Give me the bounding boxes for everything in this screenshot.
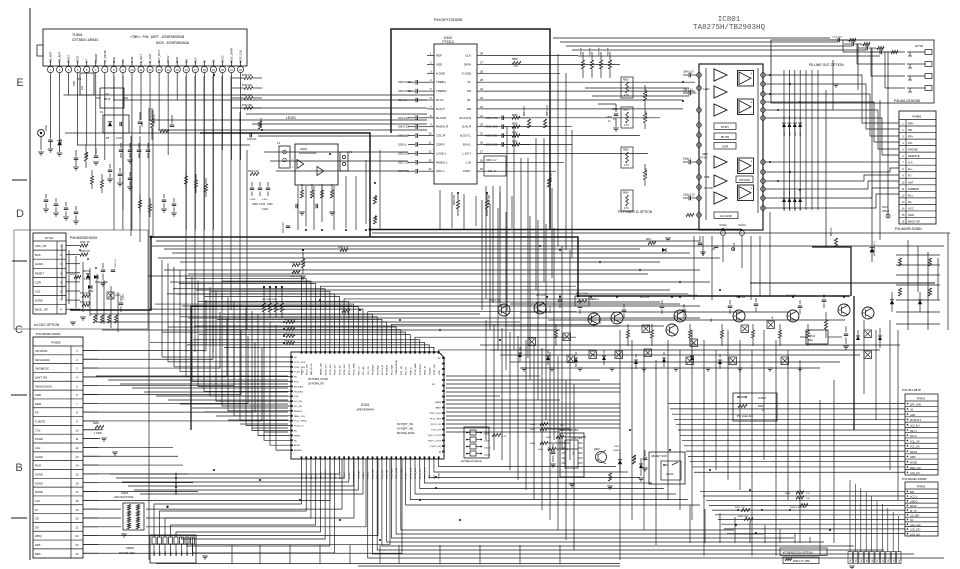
- ground: [613, 127, 619, 129]
- svg-text:P/N-6612J00015D: P/N-6612J00015D: [894, 99, 921, 103]
- resistor R446: [800, 503, 808, 506]
- svg-text:CD MUTE: CD MUTE: [35, 349, 47, 353]
- wire right columns: [619, 330, 621, 560]
- PN603 slot 1: [152, 537, 156, 544]
- PN505 pin 4 LIM(T SW: [33, 371, 83, 373]
- TU501 pin 7 AF_MUTE: [102, 66, 108, 72]
- IC401 left pins: [290, 356, 293, 358]
- svg-text:19: 19: [480, 132, 484, 136]
- svg-text:R706 470: R706 470: [80, 251, 91, 253]
- resistor R080: [744, 517, 753, 520]
- svg-text:C628: C628: [250, 199, 256, 201]
- thick section border (IC601 block): [391, 29, 550, 230]
- PN401 pin 9 VOL_DN: [905, 442, 938, 444]
- ground symbols under IC801: [665, 237, 671, 239]
- svg-text:25: 25: [480, 78, 484, 82]
- svg-text:21: 21: [76, 525, 79, 529]
- svg-text:PN801: PN801: [912, 115, 922, 119]
- svg-text:R655: R655: [512, 142, 518, 144]
- svg-text:PWR_C: PWR_C: [410, 367, 412, 375]
- svg-text:ZD701: ZD701: [83, 271, 91, 273]
- svg-text:PACE: PACE: [435, 401, 441, 404]
- svg-text:VCC1: VCC1: [719, 223, 727, 227]
- svg-text:AC.GND: AC.GND: [720, 214, 733, 218]
- resistor R507 box: [575, 296, 589, 306]
- svg-text:17: 17: [76, 490, 79, 494]
- svg-text:21: 21: [480, 114, 484, 118]
- IC903 resistor element: [128, 523, 131, 529]
- ground: [127, 159, 133, 161]
- PN801 pin 12 RL+: [899, 190, 936, 192]
- svg-text:PLCL_RE3: PLCL_RE3: [430, 419, 442, 421]
- svg-text:D.GND: D.GND: [462, 71, 471, 75]
- svg-text:PCL_AD: PCL_AD: [362, 366, 365, 375]
- svg-text:4.7K: 4.7K: [624, 125, 629, 127]
- transistor Q503: [588, 313, 600, 325]
- svg-text:R110 2.2K: R110 2.2K: [248, 171, 259, 173]
- wire bottom edge lines: [156, 563, 399, 565]
- resistor R531: [824, 320, 827, 329]
- svg-text:-: -: [751, 170, 752, 174]
- IC801 internal amp stage: [714, 86, 727, 98]
- svg-text:F1: F1: [100, 110, 104, 114]
- svg-text:SVR: SVR: [722, 145, 729, 149]
- IC601 pin 17 L-OUT: [477, 152, 484, 154]
- svg-text:PCLAGBY: PCLAGBY: [372, 364, 375, 375]
- svg-text:AB-DET S/W: AB-DET S/W: [651, 454, 667, 458]
- svg-text:C51: C51: [660, 326, 665, 328]
- svg-text:MOS_CLK: MOS_CLK: [239, 49, 243, 63]
- resistor R449 100: [796, 496, 804, 499]
- PN801 pin 14 ACC: [899, 203, 936, 205]
- ground: [48, 148, 54, 150]
- svg-text:R691 1K: R691 1K: [581, 47, 583, 56]
- svg-text:MCL_NR: MCL_NR: [401, 366, 403, 375]
- band option jumper D409: [470, 437, 476, 442]
- wire verticals from tuner: [113, 76, 115, 230]
- JK701 pin 8 BACK_UP: [33, 304, 66, 306]
- svg-text:B: B: [15, 462, 22, 474]
- PN505 pin 5 SW4(CHUCK): [33, 380, 83, 382]
- svg-text:C725 1/50: C725 1/50: [846, 41, 857, 43]
- svg-text:18: 18: [76, 499, 79, 503]
- IC801 left pin 4: [697, 123, 702, 128]
- A2 band option connector: [464, 427, 489, 458]
- wire vertical output: [783, 70, 785, 210]
- node junction dots on bold nets: [369, 228, 372, 231]
- svg-text:HKF74HCT244K: HKF74HCT244K: [114, 495, 134, 499]
- svg-text:24: 24: [480, 87, 484, 91]
- svg-text:RR-: RR-: [908, 128, 913, 132]
- PN505 pin 19 DI: [33, 504, 83, 506]
- svg-text:23: 23: [480, 96, 484, 100]
- svg-text:R688 4.7: R688 4.7: [551, 172, 553, 182]
- boxed resistor R802: [621, 77, 633, 98]
- resistor stack R401-R404 horizontal: [286, 320, 295, 323]
- svg-text:P/N:6620SEH002A: P/N:6620SEH002A: [70, 236, 98, 240]
- IC801 output stage: [738, 71, 754, 87]
- IC801 internal amp stage: [714, 175, 727, 187]
- PN401 pin 10 SE/AS: [905, 448, 938, 450]
- ground: [80, 316, 86, 318]
- IC801 internal amp stage: [714, 69, 727, 81]
- grounds row: [521, 367, 527, 369]
- svg-text:PC6P_JES: PC6P_JES: [294, 367, 305, 369]
- svg-text:82 PQPT_IN1: 82 PQPT_IN1: [397, 422, 414, 426]
- PN401 pin 6 KEY-1: [905, 426, 938, 428]
- PN401 pin 8 VOL_UP: [905, 437, 938, 439]
- svg-text:PANT: PANT: [435, 407, 441, 410]
- IC601 pin 28 CLK: [477, 55, 484, 57]
- svg-text:R401 4.1K: R401 4.1K: [284, 320, 294, 322]
- IC801 right pin 17: [761, 160, 766, 165]
- svg-text:R653 4.7K: R653 4.7K: [547, 105, 549, 116]
- svg-text:101: 101: [80, 85, 84, 90]
- svg-text:VCLAD: VCLAD: [428, 367, 431, 375]
- TU501 pin 2 FM_ANT: [56, 66, 62, 72]
- resistor R706: [80, 253, 88, 256]
- svg-text:R651: R651: [376, 214, 378, 220]
- TU501 pin 20 VCC3: [219, 66, 225, 72]
- zener diodes row: [518, 353, 522, 357]
- svg-text:B.IN.L: B.IN.L: [463, 143, 471, 147]
- IC903 resistor element: [128, 505, 131, 511]
- TU501 pin 8 GND: [111, 66, 117, 72]
- wire vertical output: [788, 70, 790, 210]
- wire IC401 bottom fan: [154, 459, 302, 537]
- diode D80x: [662, 248, 666, 252]
- speaker output wires: [766, 74, 860, 76]
- IC801 right pin 27: [761, 206, 766, 211]
- IC801 left pin 25: [697, 160, 702, 165]
- svg-text:R802: R802: [623, 79, 629, 81]
- PN505 pin 20 CE: [33, 513, 83, 515]
- svg-text:S.GND: S.GND: [704, 186, 713, 190]
- svg-text:BACK-UP: BACK-UP: [908, 219, 920, 223]
- svg-text:12: 12: [428, 149, 432, 153]
- svg-text:RADIO.R: RADIO.R: [436, 125, 448, 129]
- resistor R407: [738, 404, 747, 407]
- ground: [202, 555, 208, 557]
- PN801 pin 3 FR+: [899, 132, 936, 134]
- svg-text:B.IN.R: B.IN.R: [462, 125, 471, 129]
- svg-text:RL: RL: [467, 98, 471, 102]
- JK703 jack 2: [925, 62, 932, 67]
- svg-text:18: 18: [480, 141, 484, 145]
- svg-text:<TBK> P/N: DIRT - 6700FM0052: <TBK> P/N: DIRT - 6700FM0052B: [130, 35, 185, 39]
- PN505 pin 16 SGND: [33, 477, 83, 479]
- svg-text:Q902: Q902: [594, 449, 600, 451]
- F1 fuse box with diode: [103, 115, 129, 133]
- svg-text:C607 2.20: C607 2.20: [398, 162, 409, 164]
- IC601 pin 9 RADIO.R: [427, 126, 434, 128]
- power amplifier IC801 body: [699, 64, 763, 230]
- svg-text:DGND: DGND: [35, 299, 43, 303]
- IC801 MUTE box: [714, 133, 736, 140]
- capacitor C502: [74, 157, 79, 159]
- svg-text:DI: DI: [35, 508, 38, 512]
- svg-text:13: 13: [76, 455, 79, 459]
- svg-text:CLK: CLK: [35, 499, 40, 503]
- svg-text:R693 1K: R693 1K: [599, 47, 601, 56]
- svg-text:C626 1n: C626 1n: [398, 145, 407, 147]
- caps between transistors: [558, 299, 563, 301]
- PN505 pin 21 DO: [33, 521, 83, 523]
- TU501 pin 18 DI: [201, 66, 207, 72]
- svg-text:R649: R649: [376, 194, 378, 200]
- svg-text:C163 9-1: C163 9-1: [247, 139, 257, 141]
- svg-text:4.7K: 4.7K: [502, 436, 507, 438]
- wire links transistor row: [510, 303, 680, 305]
- svg-text:PS: PS: [35, 411, 39, 415]
- svg-text:PRCL_M: PRCL_M: [425, 366, 427, 375]
- svg-text:D510: D510: [59, 138, 63, 145]
- PN401 pin 3 GND: [905, 411, 938, 413]
- diode D702: [94, 275, 98, 279]
- svg-text:C84i 0-10: C84i 0-10: [683, 71, 694, 74]
- svg-text:16: 16: [480, 158, 484, 162]
- IC801 output stage: [738, 185, 754, 201]
- svg-text:NC: NC: [438, 358, 442, 360]
- svg-text:PCCL_DFF: PCCL_DFF: [294, 362, 306, 364]
- svg-text:PN505: PN505: [51, 341, 61, 345]
- svg-text:COP.L: COP.L: [463, 169, 472, 173]
- svg-text:RL+: RL+: [908, 193, 913, 197]
- ground: [112, 451, 118, 453]
- resistor R921: [632, 455, 635, 464]
- svg-text:R774 10K: R774 10K: [80, 302, 91, 304]
- ground: [638, 477, 644, 479]
- svg-text:P/N:01PY2313008: P/N:01PY2313008: [434, 18, 462, 22]
- svg-text:VSS: VSS: [294, 396, 299, 398]
- wire horizontals under transistor row: [480, 344, 900, 346]
- svg-text:16: 16: [76, 481, 79, 485]
- JK703 jack 3: [925, 74, 932, 79]
- boxed resistor R806: [621, 147, 633, 168]
- svg-text:PCLPWM2: PCLPWM2: [420, 363, 422, 375]
- svg-text:NC: NC: [294, 431, 298, 433]
- IC601 pin 24 FR: [477, 90, 484, 92]
- IC601 pin 18 B.IN.L: [477, 144, 484, 146]
- ground: [833, 83, 839, 85]
- PN505 pin 3 SW2(B/12C: [33, 363, 83, 365]
- IC902 surrounding caps: [551, 451, 556, 453]
- TU501 pin 11 L_OUT: [138, 66, 144, 72]
- PN505 pin 18 CLK: [33, 495, 83, 497]
- svg-text:R450: R450: [93, 422, 99, 425]
- resistor group below tuner: [90, 176, 93, 184]
- resistor R649: [373, 196, 376, 204]
- TU501 pin 12 R_OUT: [147, 66, 153, 72]
- svg-text:PCOL_DIF: PCOL_DIF: [306, 364, 308, 375]
- AB-DET switch box: [649, 452, 685, 484]
- svg-text:22: 22: [480, 105, 484, 109]
- svg-text:R428 4.7K: R428 4.7K: [340, 308, 350, 310]
- svg-text:PCOL_DM: PCOL_DM: [344, 364, 346, 375]
- svg-text:CE: CE: [35, 517, 39, 521]
- bold net lower right riser: [853, 296, 855, 430]
- PN402 pin 8 LCD_CLK: [905, 521, 938, 523]
- svg-text:PCOL_PAM: PCOL_PAM: [353, 363, 356, 375]
- resistor R428: [342, 309, 350, 312]
- PN505 pin 9 D.MUTE: [33, 416, 83, 418]
- svg-text:uPD784044A: uPD784044A: [356, 408, 374, 412]
- svg-text:CET8520-1/B540: CET8520-1/B540: [72, 38, 98, 42]
- diode cluster: [782, 123, 786, 127]
- svg-text:RR: RR: [467, 107, 471, 111]
- IC801 left pin 22: [697, 143, 702, 148]
- svg-text:PAF_MUTE: PAF_MUTE: [310, 363, 313, 375]
- PN401 pin 14 LCD_DO: [905, 469, 938, 471]
- svg-text:3300/16: 3300/16: [734, 242, 736, 251]
- svg-text:A2 Band Option: A2 Band Option: [461, 459, 483, 463]
- svg-text:VDD: VDD: [436, 62, 442, 66]
- svg-text:R8 0.3w: R8 0.3w: [831, 227, 833, 236]
- svg-text:SW4(CHUCK): SW4(CHUCK): [35, 384, 52, 388]
- ground: [299, 211, 305, 213]
- PN505 pin 2 SW1(LOAD): [33, 354, 83, 356]
- svg-text:R50 1/2W: R50 1/2W: [640, 297, 649, 299]
- resistor R110: [250, 172, 259, 175]
- IC801 left pin 14: [697, 196, 702, 201]
- svg-text:0.022: 0.022: [262, 199, 268, 201]
- svg-text:ACC: ACC: [908, 206, 914, 210]
- svg-text:NC: NC: [294, 357, 298, 359]
- PN801 pin 7 N-C: [899, 158, 936, 160]
- junction dots mesh: [213, 74, 215, 76]
- svg-text:PCLPWM: PCLPWM: [377, 365, 379, 375]
- svg-text:NC: NC: [294, 377, 298, 379]
- svg-text:FR: FR: [467, 89, 471, 93]
- svg-text:NC: NC: [294, 440, 298, 442]
- ground: [70, 321, 76, 323]
- resistor R408 vertical with ground: [301, 259, 304, 268]
- svg-text:P/N-6600R-S208N: P/N-6600R-S208N: [895, 227, 922, 231]
- svg-text:RADIO.L: RADIO.L: [436, 160, 448, 164]
- svg-text:CN_9: CN_9: [883, 558, 885, 563]
- PN801 pin 6 REMOTE: [899, 151, 936, 153]
- svg-text:GJ501: GJ501: [758, 396, 766, 400]
- svg-text:TREB.R: TREB.R: [436, 89, 447, 93]
- IC801 left pin 1: [697, 175, 702, 180]
- svg-text:CN_9: CN_9: [877, 558, 879, 563]
- svg-text:D: D: [16, 208, 24, 220]
- resistor R44x bottom: [540, 422, 548, 425]
- IC601 pin 13 RADIO.L: [427, 161, 434, 163]
- svg-text:PC6P_CZ: PC6P_CZ: [294, 372, 305, 374]
- PN401 pin 1 BAT_GND: [907, 403, 909, 405]
- wire IC801 bottom drops: [693, 236, 695, 300]
- svg-text:R652: R652: [512, 58, 518, 61]
- wire bottom edge line 2: [358, 565, 620, 567]
- resistor pair R403 R405: [292, 263, 300, 266]
- svg-text:GND: GND: [908, 213, 914, 217]
- svg-text:DIMMER: DIMMER: [908, 187, 919, 191]
- svg-text:SGND: SGND: [35, 472, 43, 476]
- PN401 pin 4 MUTE-B.4: [905, 416, 938, 418]
- IC801 internal rails: [705, 68, 707, 220]
- IC801 right pin 20: [761, 179, 766, 184]
- junction dots op-amp drops: [305, 229, 307, 231]
- capacitor C707: [111, 269, 116, 271]
- zener ZD701: [86, 274, 90, 278]
- caps row y190: [250, 187, 255, 189]
- JK703 jack 1: [925, 50, 932, 55]
- svg-text:GND: GND: [44, 125, 48, 131]
- svg-text:29 PORN_PS: 29 PORN_PS: [308, 382, 324, 386]
- transistor Q902: [596, 452, 607, 463]
- IC801 internal amp stage: [714, 104, 727, 116]
- svg-text:R773 10K: R773 10K: [80, 293, 91, 295]
- TU501 pin 9 SD: [120, 66, 126, 72]
- ground: [38, 151, 44, 153]
- svg-text:R728 10K: R728 10K: [242, 75, 253, 77]
- IC801 right pin 7: [761, 82, 766, 87]
- wire bus IC601 to IC801: [484, 55, 578, 57]
- IC801 AC.GND box: [714, 212, 738, 219]
- PN402 pin 10 LOO_DO: [905, 530, 938, 532]
- junction dots transistor rail: [546, 296, 548, 298]
- PN402 pin 2 ACC-1: [905, 493, 938, 495]
- svg-text:PN401: PN401: [917, 397, 926, 401]
- IC601 right diode-resistor rows: [484, 117, 486, 119]
- svg-text:JK701: JK701: [45, 236, 54, 240]
- PN505 pin 7 REW: [33, 398, 83, 400]
- resistor pair R448 100: [796, 491, 804, 494]
- svg-text:RES: RES: [35, 552, 41, 556]
- svg-text:TRANSGSPNR: TRANSGSPNR: [395, 359, 398, 375]
- svg-text:R809: R809: [623, 192, 629, 194]
- svg-text:HSD: HSD: [704, 87, 710, 91]
- svg-text:IC401: IC401: [361, 403, 370, 407]
- svg-text:TA8275H/TB2903HQ: TA8275H/TB2903HQ: [693, 24, 766, 32]
- dots option area: [79, 249, 81, 251]
- svg-text:R697 47K: R697 47K: [489, 194, 491, 205]
- CDC option outline box: [14, 230, 148, 329]
- cap C8xx bottom2: [714, 245, 719, 247]
- capacitor C642: [315, 204, 317, 209]
- svg-text:SO_760: SO_760: [294, 401, 303, 403]
- TU501 pin 4 VCC1: [75, 66, 81, 72]
- ground: [843, 345, 849, 347]
- svg-text:A.GND: A.GND: [436, 71, 445, 75]
- IC801 left pin 23: [697, 108, 702, 113]
- IC801 right pin 2: [761, 187, 766, 192]
- JK703 jack 4: [925, 86, 932, 91]
- TU501 pin 16 DO: [183, 66, 189, 72]
- TU501 pin 15 GND: [174, 66, 180, 72]
- capacitor C805: [614, 113, 619, 115]
- resistor R8xx pin26: [686, 213, 694, 216]
- auto antenna option box: [733, 393, 777, 421]
- TU501 pin 19 CE: [210, 66, 216, 72]
- emitter resistors row: [554, 330, 557, 338]
- JK701 pin 5 COR: [33, 276, 66, 278]
- diode D8xx backup: [870, 248, 875, 253]
- svg-text:PCOL_DN: PCOL_DN: [330, 364, 332, 375]
- svg-text:SW2(B/12C: SW2(B/12C: [35, 367, 49, 371]
- svg-text:-: -: [751, 197, 752, 201]
- svg-text:SGND: SGND: [35, 481, 43, 485]
- svg-text:R655: R655: [512, 133, 518, 135]
- PN401 pin 13 PRE_CLK: [905, 463, 938, 465]
- svg-text:R743 20K: R743 20K: [242, 105, 253, 107]
- svg-text:5R1F: 5R1F: [104, 97, 111, 101]
- svg-text:MUTE: MUTE: [721, 135, 730, 139]
- transistor Q506: [674, 310, 686, 322]
- TU501 pin 21 MOS_DATA: [228, 66, 234, 72]
- svg-text:D.MUTE: D.MUTE: [35, 420, 46, 424]
